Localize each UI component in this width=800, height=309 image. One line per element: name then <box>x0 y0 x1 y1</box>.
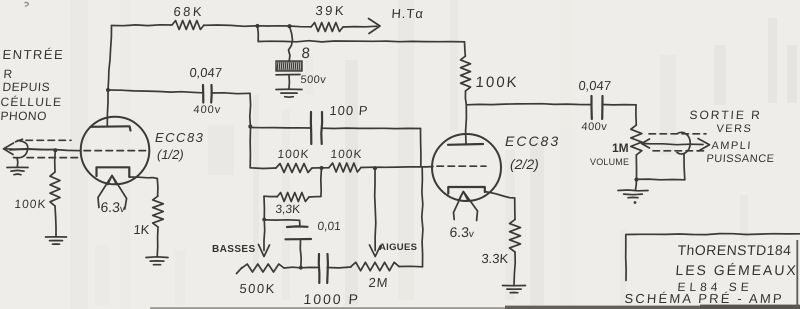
resistor 100K (tone right) <box>329 163 361 172</box>
wire: input 100K to ground <box>55 206 56 237</box>
output cable dashed (top) <box>649 133 706 135</box>
capacitor 8uF (electrolytic, hatched plate) <box>276 61 302 89</box>
wire: V2 plate to output coupling cap <box>466 104 591 105</box>
wire: tone stack input <box>250 167 276 170</box>
ground (input 100K) <box>46 237 67 244</box>
wire: 100P to V2 grid node <box>322 127 421 130</box>
output arrow (SORTIE) <box>650 143 703 146</box>
svg-text:CÉLLULE: CÉLLULE <box>0 94 63 109</box>
scan artifact: small stray mark top-left <box>25 2 29 6</box>
svg-text:400v: 400v <box>193 104 222 116</box>
wire: tone mid to 3.3K <box>309 168 322 197</box>
wire: input junction to 100K <box>54 150 57 172</box>
svg-text:100K: 100K <box>277 147 310 161</box>
wire: output shield to ground <box>683 154 686 180</box>
V1 cathode <box>97 167 130 177</box>
svg-text:400v: 400v <box>581 121 608 133</box>
svg-text:AMPLI: AMPLI <box>711 140 752 152</box>
svg-text:3,3K: 3,3K <box>275 202 301 216</box>
wire: between tone 100Ks <box>312 167 329 169</box>
wire: 0,047 to volume pot <box>602 104 636 106</box>
svg-text:0,047: 0,047 <box>578 78 612 93</box>
capacitor 1000P <box>318 254 321 283</box>
capacitor 0,01 <box>287 225 308 228</box>
arrow: AIGUES wiper <box>375 169 376 251</box>
svg-text:39K: 39K <box>315 3 347 18</box>
svg-text:R: R <box>3 67 13 81</box>
svg-text:100K: 100K <box>14 197 47 211</box>
output cable cross-section <box>677 132 690 154</box>
svg-text:LES GÉMEAUX: LES GÉMEAUX <box>675 262 798 278</box>
svg-text:0,047: 0,047 <box>189 65 223 80</box>
node: junction to V2 plate rail <box>255 24 259 28</box>
wire: to 100P <box>250 127 310 130</box>
potentiometer 1M VOLUME <box>631 125 642 155</box>
V2 grid (dashed) <box>437 165 486 167</box>
resistor 1K (V1 cathode) <box>153 196 164 227</box>
wire: V2 cathode 3.3K to ground <box>514 252 515 285</box>
resistor 3.3K (V2 cathode) <box>510 220 521 253</box>
wire: plate junction to 0,047 <box>108 90 203 93</box>
resistor 3.3K (tone) <box>277 193 309 202</box>
node: V1 plate / coupling junction <box>106 88 110 92</box>
input cable dashed (bottom) <box>27 157 78 159</box>
svg-text:ENTRÉE: ENTRÉE <box>2 47 65 62</box>
ground (input shield) <box>7 167 28 174</box>
potentiometer 2M (AIGUES) <box>351 262 399 270</box>
wire: 1K to ground <box>156 227 159 257</box>
svg-text:AIGUES: AIGUES <box>379 242 417 253</box>
wire: 2M to V2 grid node <box>399 265 423 268</box>
svg-text:VOLUME: VOLUME <box>590 157 629 167</box>
svg-text:3.3K: 3.3K <box>481 251 509 266</box>
wire: junction to 8uF <box>289 26 293 61</box>
resistor 100K (tone left) <box>276 164 312 173</box>
svg-text:68K: 68K <box>173 4 205 19</box>
wire: junction to ground <box>636 180 637 191</box>
svg-text:2M: 2M <box>368 275 389 290</box>
wire arrow: to H.T. supply <box>343 25 377 28</box>
node: junction to 8uF filter cap <box>287 24 291 28</box>
resistor 100K (V2 plate load) <box>461 56 471 91</box>
svg-text:(1/2): (1/2) <box>157 147 184 162</box>
resistor 100K (input) <box>50 172 60 206</box>
V1 cathode lead <box>129 177 157 179</box>
wire: 3.3K to BASSES arrow <box>264 195 277 197</box>
V2 cathode <box>448 187 485 194</box>
wire: tone output to V2 grid <box>361 167 433 168</box>
svg-text:500K: 500K <box>239 281 276 296</box>
svg-text:1000 P: 1000 P <box>303 291 360 307</box>
node: 100P branch junction <box>248 125 252 129</box>
wire: V1 plate lead <box>106 90 109 127</box>
capacitor 100P <box>310 112 313 144</box>
wire: V1 plate riser / top rail corner <box>108 26 112 91</box>
svg-text:500v: 500v <box>300 74 327 86</box>
svg-text:(2/2): (2/2) <box>510 156 539 172</box>
svg-text:H.Tα: H.Tα <box>391 6 424 21</box>
node: tone mid junction <box>320 166 324 170</box>
svg-text:8: 8 <box>301 45 311 62</box>
svg-text:1M: 1M <box>612 141 629 155</box>
svg-text:SORTIE R: SORTIE R <box>689 108 762 122</box>
input cable dashed (top) <box>26 139 71 141</box>
V1 grid (dashed) <box>84 150 146 152</box>
arrow: volume wiper <box>643 143 651 145</box>
svg-text:100K: 100K <box>475 74 519 91</box>
ground (V2 cathode) <box>503 286 526 293</box>
svg-text:BASSES: BASSES <box>212 244 256 255</box>
capacitor 0,047 400v (output) <box>590 96 592 119</box>
capacitor 0,047 400v (V1 coupling) <box>202 85 205 103</box>
node: 0,01 junction <box>262 218 266 222</box>
ground (1K) <box>146 257 168 265</box>
svg-text:ECC83: ECC83 <box>505 133 560 149</box>
wire: 1000P to 2M <box>327 266 351 269</box>
scan edge: right margin line <box>796 240 798 309</box>
svg-text:PHONO: PHONO <box>0 109 47 123</box>
svg-text:1K: 1K <box>133 222 150 237</box>
svg-text:ECC83: ECC83 <box>155 130 204 145</box>
arrow: BASSES wiper <box>259 245 270 257</box>
node: 0,01 bottom junction <box>299 266 303 270</box>
V2 cathode lead <box>485 192 515 199</box>
svg-text:SCHÉMA PRÉ - AMP: SCHÉMA PRÉ - AMP <box>624 291 784 306</box>
wire: V2 plate node <box>464 91 467 105</box>
V1 heater <box>108 176 117 185</box>
title box <box>626 234 800 281</box>
V2 heater <box>459 192 469 201</box>
node: shield/pot ground junction <box>634 177 638 181</box>
wire: to 0,01 cap <box>264 219 299 222</box>
svg-text:PUISSANCE: PUISSANCE <box>706 153 775 165</box>
node: AIGUES junction <box>373 166 377 170</box>
ground (volume) <box>618 190 648 198</box>
V2 plate <box>448 143 483 146</box>
svg-text:VERS: VERS <box>716 123 753 135</box>
potentiometer 500K (BASSES) <box>237 268 243 274</box>
wire: 68K to 39K <box>204 25 311 27</box>
input arrow (ENTREE R) <box>4 149 48 150</box>
wire: top rail to 68K <box>112 24 173 27</box>
wire: 1M to ground <box>635 155 637 180</box>
wire: 500K to 1000P <box>284 266 319 269</box>
output cable dashed (bottom) <box>653 150 704 152</box>
wire: B+ rail to V2 plate load <box>257 26 260 42</box>
V1 grid lead <box>10 149 81 151</box>
svg-text:DEPUIS: DEPUIS <box>2 80 51 94</box>
resistor 39K <box>311 23 343 32</box>
svg-text:100 P: 100 P <box>329 103 369 118</box>
svg-text:100K: 100K <box>330 147 363 161</box>
tube V1 ECC83 (1/2) envelope <box>81 117 150 185</box>
wire: 0,047 to tone stack <box>211 92 250 95</box>
V1 plate <box>91 126 131 130</box>
node: grid/input junction <box>53 148 57 152</box>
scan edge: bottom dark band <box>150 307 800 309</box>
svg-text:TһORENSTD184: TһORENSTD184 <box>677 242 792 258</box>
wire: shield to ground <box>16 158 19 168</box>
ground (8uF) <box>276 89 302 97</box>
svg-text:0,01: 0,01 <box>317 219 342 233</box>
input cable shield loop <box>14 141 28 158</box>
resistor 68K <box>172 21 204 30</box>
tube V2 ECC83 (2/2) envelope <box>432 134 501 201</box>
